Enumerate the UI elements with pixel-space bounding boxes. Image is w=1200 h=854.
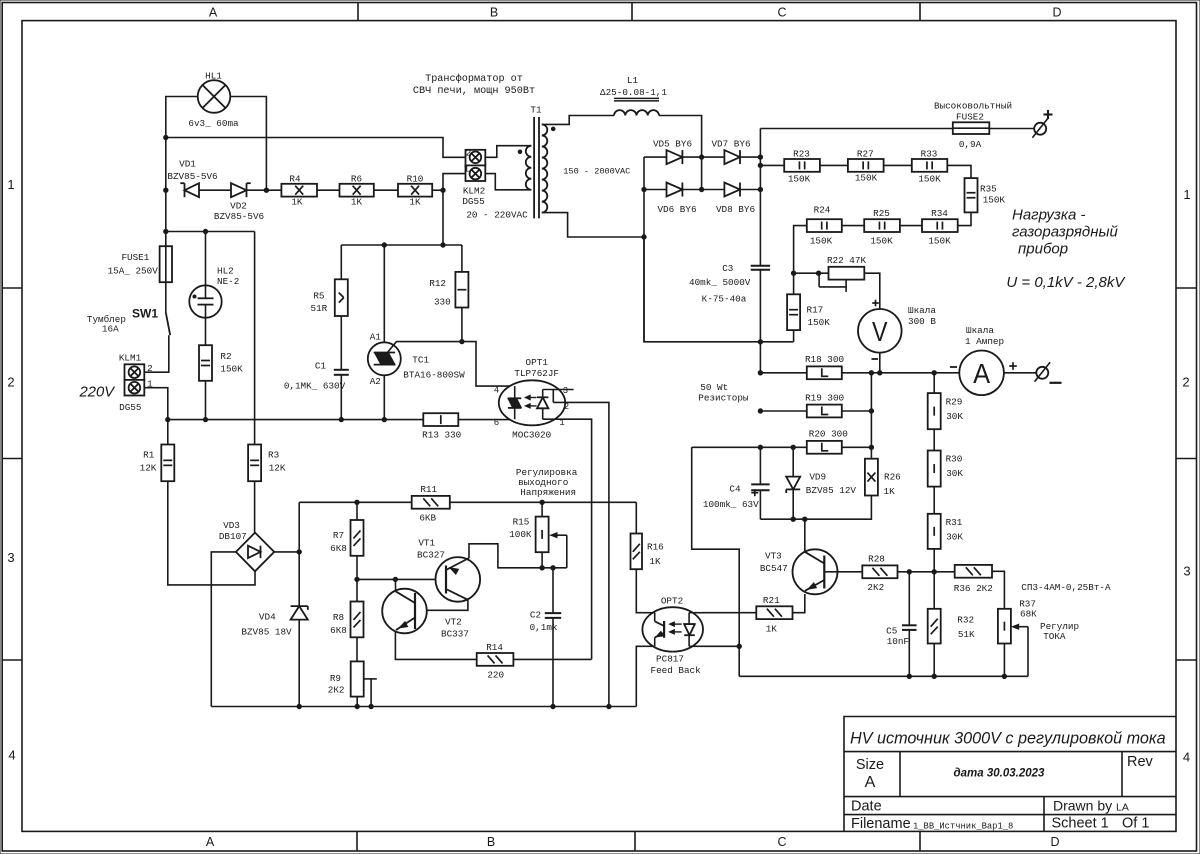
label R27 value <box>855 173 878 184</box>
wire V meter down <box>879 353 881 373</box>
resistor R23 <box>784 159 820 172</box>
label VT2 <box>445 617 462 628</box>
wire AC rail lower <box>168 419 423 421</box>
svg-text:R18 300: R18 300 <box>805 354 844 365</box>
label R17 value <box>808 317 831 328</box>
svg-text:R33: R33 <box>921 149 938 160</box>
label R33 value <box>918 174 941 185</box>
label VD4 <box>259 612 276 623</box>
label 50Wt line2 <box>698 393 749 404</box>
label OPT1 pin 2 <box>564 402 569 412</box>
minus sign A meter <box>950 366 957 368</box>
node R31R32 <box>932 570 936 574</box>
wire R2 bottom <box>205 381 207 420</box>
label C2 <box>530 610 541 621</box>
label C3 value <box>689 277 751 288</box>
resistor R19 <box>807 405 842 418</box>
zener VD4 <box>291 606 308 620</box>
sheet label <box>1052 816 1109 832</box>
plus sign V meter <box>872 300 879 307</box>
filename value <box>913 822 1013 832</box>
svg-text:BC547: BC547 <box>760 563 788 574</box>
label Шкала 1 Ампер line2 <box>965 336 1004 347</box>
resistor R27 <box>848 159 884 172</box>
svg-text:0,1MK_ 630V: 0,1MK_ 630V <box>284 381 346 392</box>
capacitor C4 <box>751 484 769 490</box>
svg-text:R28: R28 <box>868 554 885 565</box>
label R10 <box>407 174 424 185</box>
svg-text:MOC3020: MOC3020 <box>512 430 551 441</box>
svg-text:KLM2: KLM2 <box>463 186 485 197</box>
wiper R15 <box>551 533 567 568</box>
label R10 value <box>409 197 421 208</box>
trimmer R9 <box>351 661 364 696</box>
row label 1 right <box>1183 187 1190 202</box>
meter V <box>858 309 902 353</box>
wire R13 to OPT1 pin6 <box>458 419 514 421</box>
svg-text:СП3-4АМ-0,25Вт-А: СП3-4АМ-0,25Вт-А <box>1021 582 1111 593</box>
svg-text:15A_ 250V: 15A_ 250V <box>108 266 159 277</box>
label Напряжения <box>520 487 576 498</box>
svg-text:B: B <box>487 835 495 849</box>
transformer T1 core <box>534 117 539 218</box>
wire R16 stem top <box>635 502 637 533</box>
svg-text:1: 1 <box>1183 187 1190 202</box>
row label 3 right <box>1183 564 1190 579</box>
plus sign C4 <box>751 489 758 496</box>
svg-text:150K: 150K <box>928 236 951 247</box>
node V meter bottom <box>878 371 882 375</box>
svg-text:R12: R12 <box>429 278 446 289</box>
svg-text:V: V <box>872 316 888 347</box>
label Регулировка <box>516 467 578 478</box>
svg-text:VD9: VD9 <box>809 472 826 483</box>
svg-text:VD3: VD3 <box>223 520 240 531</box>
switch SW1 <box>166 313 170 336</box>
svg-text:6К8: 6К8 <box>330 543 347 554</box>
title text <box>850 730 1166 748</box>
svg-text:C4: C4 <box>729 484 741 495</box>
label FUSE1 <box>121 252 149 263</box>
wire R37 bottom <box>1003 644 1005 677</box>
node vertical-top wire <box>441 243 445 247</box>
label R21 <box>763 595 780 606</box>
svg-text:R34: R34 <box>931 208 948 219</box>
resistor R21 <box>756 606 792 619</box>
svg-text:B: B <box>490 6 498 20</box>
label C5 value <box>887 636 909 647</box>
label FUSE1 value <box>108 266 159 277</box>
wire R1 bottom to bridge <box>168 481 255 585</box>
label 16A <box>102 324 119 335</box>
svg-text:ТОКА: ТОКА <box>1043 631 1066 642</box>
svg-text:0,9A: 0,9A <box>959 139 982 150</box>
left band row dividers <box>2 288 22 660</box>
wire R7 stem <box>356 502 358 520</box>
wire R14 right <box>513 658 591 660</box>
svg-text:TC1: TC1 <box>412 355 429 366</box>
svg-text:51K: 51K <box>958 629 975 640</box>
svg-text:R7: R7 <box>333 530 344 541</box>
OPT1 led <box>537 390 548 420</box>
svg-text:Of 1: Of 1 <box>1122 816 1149 832</box>
wire R22 left <box>794 272 829 274</box>
wire VD3 left corner <box>211 552 236 707</box>
svg-text:68К: 68К <box>1020 609 1037 620</box>
label R5 <box>313 291 324 302</box>
resistor R1 <box>161 445 174 482</box>
triac TC1 <box>368 245 401 420</box>
label Шкала 1 Ампер line1 <box>966 325 994 336</box>
svg-text:R15: R15 <box>513 517 530 528</box>
node rail R23 <box>758 163 762 167</box>
svg-text:дата 30.03.2023: дата 30.03.2023 <box>954 768 1045 780</box>
label R1 <box>143 450 155 461</box>
svg-text:0,1mk: 0,1mk <box>530 622 558 633</box>
wire SW1 to KLM1-2 <box>144 335 169 372</box>
resistor R35 <box>965 178 978 212</box>
node C2 top tie <box>551 566 555 570</box>
svg-text:220V: 220V <box>79 385 117 401</box>
label R7 value <box>330 543 347 554</box>
svg-text:2: 2 <box>564 402 569 412</box>
optocoupler OPT2 body <box>642 607 703 651</box>
wire R34-R25 <box>900 225 922 227</box>
wiper R22 <box>819 273 846 292</box>
label OPT2 Feed Back <box>650 665 701 676</box>
svg-text:A2: A2 <box>370 376 381 387</box>
row label 2 right <box>1182 375 1189 390</box>
filename label <box>851 816 911 832</box>
node VT2 collector tie <box>393 577 397 581</box>
svg-text:R20 300: R20 300 <box>809 429 848 440</box>
wire lower right rail <box>739 675 1028 677</box>
wire R18R26 vertical <box>870 373 872 459</box>
label R18 <box>805 354 844 365</box>
label R35 <box>980 184 997 195</box>
label R21 value <box>766 624 778 635</box>
drawn by value LA <box>1116 802 1129 814</box>
label OPT1 pin 4 <box>494 386 499 396</box>
wire HV output rail <box>759 129 761 266</box>
bridge VD3 <box>236 533 274 572</box>
wire R16 to OPT2 <box>636 569 642 613</box>
node VD9 top <box>791 445 795 449</box>
node HL1 right diode row <box>264 188 268 192</box>
label R15 <box>513 517 530 528</box>
svg-text:HV источник 3000V с регулировк: HV источник 3000V с регулировкой тока <box>850 730 1166 748</box>
transistor VT2 <box>382 589 427 634</box>
diode VD6 <box>667 183 683 197</box>
svg-text:R23: R23 <box>793 149 810 160</box>
svg-text:3: 3 <box>563 386 568 396</box>
wire OPT1 pin2 <box>553 402 609 706</box>
label R3 value <box>269 463 286 474</box>
wire R20 row <box>692 446 807 448</box>
label R26 <box>884 472 901 483</box>
plus sign A meter <box>1009 362 1017 370</box>
svg-text:Rev: Rev <box>1127 754 1154 770</box>
svg-text:T1: T1 <box>530 105 542 116</box>
node HL2 top <box>203 229 207 233</box>
label 6v3_ 60ma <box>188 118 239 129</box>
label VD6 <box>657 204 696 215</box>
svg-text:L1: L1 <box>627 75 639 86</box>
label R6 value <box>351 197 363 208</box>
potentiometer R22 <box>829 267 865 280</box>
label KLM1 pin 2 <box>147 363 153 374</box>
label OPT1 type <box>514 368 559 379</box>
svg-text:1K: 1K <box>884 486 896 497</box>
wire gate to OPT1 pin4 <box>462 342 515 387</box>
capacitor C2 <box>545 568 561 707</box>
wire R4-R6 <box>317 189 340 191</box>
svg-text:VD1: VD1 <box>179 159 196 170</box>
wire diode left rail <box>643 157 645 342</box>
svg-text:1: 1 <box>7 177 14 192</box>
wire R19 right <box>842 410 872 412</box>
wire C3 bottom link <box>644 237 794 342</box>
label KLM1 type DG55 <box>119 402 141 413</box>
svg-text:20 - 220VAC: 20 - 220VAC <box>466 210 528 221</box>
resistor R13 <box>423 413 458 426</box>
wire KLM2-1 link <box>443 174 466 245</box>
wire R33 to R35 <box>947 165 971 178</box>
label C1 value <box>284 381 346 392</box>
wire R18 left <box>760 372 806 374</box>
label C4 value <box>703 499 759 510</box>
svg-text:Трансформатор от: Трансформатор от <box>425 72 523 85</box>
label R32 <box>957 615 974 626</box>
svg-text:6КВ: 6КВ <box>419 513 436 524</box>
wire VD6-VD8 <box>682 189 724 191</box>
label SW1 <box>132 307 158 321</box>
label KLM2 <box>463 186 485 197</box>
sheet of label <box>1122 816 1149 832</box>
date row label <box>851 799 882 815</box>
label 20 - 220VAC <box>466 210 528 221</box>
resistor R7 <box>351 520 364 556</box>
label R23 <box>793 149 810 160</box>
label выходного <box>518 477 568 488</box>
wire R9 bottom <box>356 697 358 707</box>
svg-text:50 Wt: 50 Wt <box>700 382 728 393</box>
svg-text:PC817: PC817 <box>656 654 684 665</box>
wire mid top <box>341 244 462 246</box>
zener VD2 <box>231 183 251 197</box>
terminal HV plus <box>1032 118 1048 138</box>
label 50Wt line1 <box>700 382 728 393</box>
label VD5 <box>653 139 692 150</box>
resistor R8 <box>351 602 364 638</box>
svg-text:220: 220 <box>487 670 504 681</box>
capacitor C1 <box>334 370 349 375</box>
label U range <box>1006 274 1126 291</box>
svg-text:BC327: BC327 <box>417 550 445 561</box>
svg-text:Feed Back: Feed Back <box>650 665 701 676</box>
svg-text:OPT1: OPT1 <box>526 357 549 368</box>
lamp HL2 neon <box>189 232 221 318</box>
wire HL1 right <box>230 97 266 191</box>
svg-text:150K: 150K <box>870 236 893 247</box>
svg-text:TLP762JF: TLP762JF <box>514 368 559 379</box>
svg-text:FUSE2: FUSE2 <box>956 112 984 123</box>
label Шкала 300В line1 <box>908 305 936 316</box>
label R4 <box>289 174 301 185</box>
svg-text:R8: R8 <box>333 612 344 623</box>
svg-text:1 Ампер: 1 Ампер <box>965 336 1004 347</box>
label FUSE2 value <box>959 139 982 150</box>
resistor R2 <box>199 345 212 381</box>
column label C top <box>777 6 786 20</box>
size value A <box>865 774 876 791</box>
wire DC plus up <box>298 502 300 552</box>
wire R30-R31 <box>933 487 935 514</box>
label KLM2 pin 2 <box>466 147 472 158</box>
minus sign V meter <box>872 358 879 360</box>
label R24 <box>814 205 831 216</box>
svg-text:Size: Size <box>856 757 884 773</box>
column label D top <box>1052 6 1061 20</box>
svg-text:A: A <box>865 774 876 791</box>
resistor R18 <box>807 366 842 379</box>
label R13 <box>422 430 461 441</box>
label R16 <box>647 542 664 553</box>
label Регулир <box>1040 621 1079 632</box>
resistor R4 <box>281 184 317 197</box>
wire VD3 right corner <box>274 551 299 553</box>
node OPT1 pin2 rail <box>607 704 611 708</box>
svg-text:150K: 150K <box>855 173 878 184</box>
wire VD7 out <box>740 156 760 158</box>
node VD5-VD7 mid <box>699 155 703 159</box>
label OPT1 pin 3 <box>563 386 568 396</box>
node rail R19 row <box>758 409 762 413</box>
label R28 <box>868 554 885 565</box>
svg-text:30K: 30K <box>946 411 963 422</box>
svg-text:1K: 1K <box>291 197 303 208</box>
wire OPT1 pin1 <box>543 419 592 659</box>
node R22 wiper tie <box>816 271 820 275</box>
label R11 value <box>419 513 436 524</box>
node VT3 collector top <box>803 517 807 521</box>
row label 4 right <box>1183 750 1190 765</box>
wire FUSE1 bottom stem <box>165 282 167 312</box>
label R26 value <box>884 486 896 497</box>
label R29 value <box>946 411 963 422</box>
svg-text:1: 1 <box>464 163 470 174</box>
node C2 rail <box>551 704 555 708</box>
svg-text:150K: 150K <box>810 236 833 247</box>
node R22 row junction <box>791 271 795 275</box>
svg-text:6К8: 6К8 <box>330 625 347 636</box>
wire T1 primary bottom lead <box>485 174 531 190</box>
label KLM2 pin 1 <box>464 163 470 174</box>
resistor R14 <box>477 653 514 666</box>
node HL1 left top wire <box>164 135 168 139</box>
node VD4 rail <box>297 704 301 708</box>
node R18 vertical <box>869 371 873 375</box>
label OPT1 <box>526 357 549 368</box>
svg-text:3: 3 <box>7 550 14 565</box>
svg-text:VT2: VT2 <box>445 617 462 628</box>
svg-text:BZV85 12V: BZV85 12V <box>806 485 857 496</box>
wire VT2 collector up <box>394 579 396 591</box>
label Тумблер <box>87 314 126 325</box>
capacitor C5 <box>902 572 917 677</box>
svg-text:A: A <box>206 835 215 849</box>
column label B bottom <box>487 835 495 849</box>
node R20 right <box>869 445 873 449</box>
svg-text:10nF: 10nF <box>887 636 909 647</box>
svg-text:R14: R14 <box>486 642 503 653</box>
svg-text:300 В: 300 В <box>908 316 936 327</box>
title block outline <box>844 717 1176 832</box>
wire R5 top stem <box>340 245 342 279</box>
wire C4 bottom <box>759 490 761 519</box>
svg-text:1K: 1K <box>649 556 661 567</box>
label R17 <box>807 305 824 316</box>
svg-text:A1: A1 <box>370 332 382 343</box>
wire VD8 out <box>740 189 760 191</box>
svg-text:FUSE1: FUSE1 <box>121 252 149 263</box>
wire A meter plus <box>1004 372 1037 374</box>
svg-text:VD7 BY6: VD7 BY6 <box>711 139 750 150</box>
label VT1 <box>418 538 435 549</box>
svg-text:KLM1: KLM1 <box>119 353 142 364</box>
svg-text:R21: R21 <box>763 595 780 606</box>
wire R28 right <box>898 571 955 573</box>
label R14 <box>486 642 503 653</box>
wire VD6 row left <box>644 189 667 191</box>
svg-text:R6: R6 <box>351 174 362 185</box>
wire R29-R30 <box>933 429 935 450</box>
rev label <box>1127 754 1154 770</box>
svg-text:40mk_ 5000V: 40mk_ 5000V <box>689 277 751 288</box>
label R34 value <box>928 236 951 247</box>
wire R7-R8 <box>356 556 358 602</box>
node output rail VD8 <box>758 187 762 191</box>
label прибор <box>1018 241 1068 258</box>
wire top AC <box>166 231 255 233</box>
row label 3 left <box>7 550 14 565</box>
label L1 value <box>600 87 667 98</box>
label Нагрузка <box>1012 207 1085 224</box>
label R12 value <box>434 297 451 308</box>
resistor R5 <box>335 279 348 316</box>
svg-text:R25: R25 <box>873 208 890 219</box>
wire C4 rail <box>759 447 761 484</box>
fuse FUSE1 <box>160 246 172 282</box>
label VD3 type <box>219 531 247 542</box>
node rail HL2 <box>203 417 207 421</box>
node OPT2 cathode junction <box>737 644 741 648</box>
svg-text:Drawn by: Drawn by <box>1053 798 1112 814</box>
label OPT1 alt type MOC3020 <box>512 430 551 441</box>
label VT3 type <box>760 563 788 574</box>
label TC1 A1 <box>370 332 382 343</box>
label R31 value <box>946 532 963 543</box>
column label A bottom <box>206 835 215 849</box>
node output rail VD7 <box>758 155 762 159</box>
resistor R6 <box>340 184 374 197</box>
wire OPT2 cathode <box>703 645 739 647</box>
svg-text:30K: 30K <box>946 532 963 543</box>
right band row dividers <box>1176 288 1197 660</box>
wire R6-R10 <box>374 189 398 191</box>
svg-text:LA: LA <box>1116 802 1129 814</box>
label R6 <box>351 174 362 185</box>
